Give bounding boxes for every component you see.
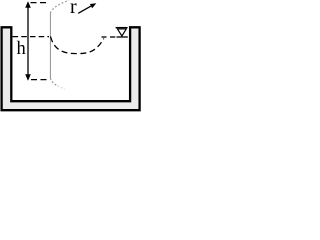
svg-text:h: h (17, 39, 26, 59)
svg-text:r: r (70, 0, 77, 18)
